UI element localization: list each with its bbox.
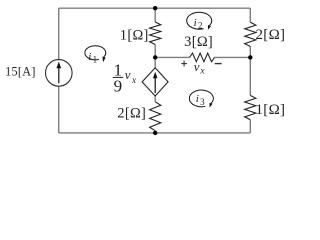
svg-text:x: x: [131, 75, 137, 85]
svg-text:i: i: [88, 51, 91, 63]
svg-text:3[Ω]: 3[Ω]: [184, 34, 213, 50]
svg-text:3: 3: [200, 97, 205, 107]
node bottom middle: [153, 131, 157, 135]
wire middle horizontal right: [215, 56, 251, 58]
resistor R 2ohm right top: [245, 22, 256, 46]
mesh current i3: [189, 90, 213, 108]
wire left upper: [58, 8, 60, 60]
svg-text:x: x: [199, 66, 205, 76]
svg-text:15[A]: 15[A]: [5, 64, 36, 78]
wire middle between R and node: [154, 45, 156, 58]
svg-text:i: i: [196, 93, 199, 105]
wire diamond to resistor: [154, 96, 156, 102]
label 15[A]: [5, 64, 36, 78]
wire bottom: [59, 132, 251, 134]
svg-text:2[Ω]: 2[Ω]: [256, 27, 286, 43]
label 1/9 vx fraction: [113, 61, 137, 96]
node middle: [153, 55, 157, 59]
resistor R 1ohm right bottom: [245, 95, 256, 119]
svg-text:1[Ω]: 1[Ω]: [256, 102, 286, 118]
resistor R 3ohm horizontal: [190, 53, 215, 62]
label 1[ohm] top middle: [120, 27, 149, 43]
label 2[ohm] right top: [256, 27, 286, 43]
svg-text:2: 2: [198, 21, 203, 31]
resistor R 2ohm bottom middle: [150, 102, 161, 131]
wire right upper stub: [249, 8, 251, 22]
label 1[ohm] right bottom: [256, 102, 286, 118]
label vx voltage: [194, 59, 206, 76]
wire middle top stub: [154, 8, 156, 22]
label 2[ohm] bottom middle: [117, 105, 146, 121]
node top middle: [153, 6, 157, 10]
svg-text:i: i: [194, 17, 197, 29]
wire left lower: [58, 86, 60, 133]
wire middle horizontal left: [155, 56, 189, 58]
wire top: [59, 7, 251, 9]
mesh current i2: [187, 12, 212, 30]
resistor R 1ohm top middle: [150, 22, 161, 45]
svg-text:1[Ω]: 1[Ω]: [120, 27, 149, 43]
wire resistor to bottom: [154, 131, 156, 133]
label minus sign: [215, 63, 222, 65]
current source 15A circle: [46, 60, 73, 87]
svg-text:v: v: [194, 59, 200, 74]
svg-text:9: 9: [114, 76, 123, 95]
svg-text:2[Ω]: 2[Ω]: [117, 105, 146, 121]
wire right lower stub: [249, 120, 251, 133]
label plus sign: [181, 61, 187, 67]
node right middle: [248, 55, 252, 59]
svg-text:1: 1: [93, 55, 98, 65]
wire right middle: [249, 47, 251, 96]
label 3[ohm]: [184, 34, 213, 50]
mesh current i1: [85, 46, 106, 65]
wire node to diamond: [154, 57, 156, 68]
dependent current source diamond: [142, 68, 168, 96]
svg-text:v: v: [125, 67, 131, 82]
